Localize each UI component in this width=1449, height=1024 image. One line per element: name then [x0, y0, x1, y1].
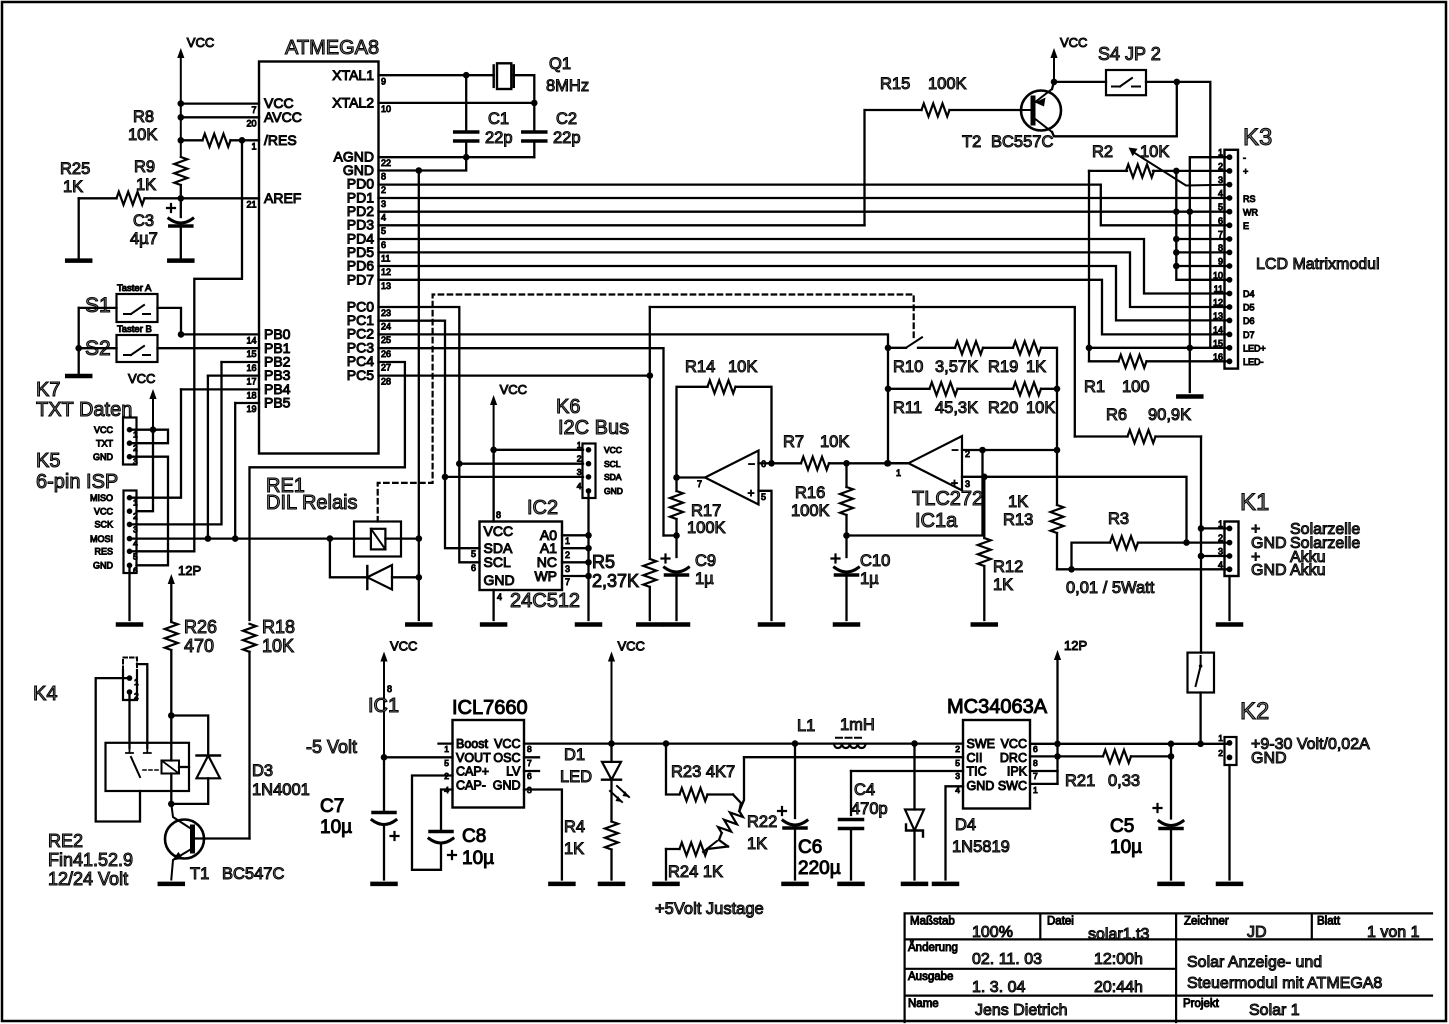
resistor R8 10K on /RES line	[181, 139, 203, 141]
junction dot diode right	[416, 574, 423, 581]
svg-text:1N5819: 1N5819	[952, 838, 1010, 856]
svg-text:IPK: IPK	[1007, 765, 1028, 779]
svg-text:R10: R10	[893, 358, 923, 376]
potentiometer R2 10K contrast	[1089, 170, 1127, 172]
svg-text:25: 25	[381, 335, 391, 345]
svg-text:4µ7: 4µ7	[130, 230, 158, 248]
svg-text:VCC: VCC	[604, 445, 622, 455]
svg-text:1: 1	[1033, 785, 1038, 795]
svg-text:D3: D3	[252, 762, 273, 780]
svg-text:ATMEGA8: ATMEGA8	[285, 37, 379, 59]
svg-text:R6: R6	[1106, 406, 1127, 424]
svg-text:C5: C5	[1110, 816, 1134, 837]
svg-text:12: 12	[1213, 298, 1223, 308]
svg-text:D1: D1	[564, 746, 585, 764]
inductor L1 1mH	[834, 744, 866, 748]
K3 pin dots	[1227, 154, 1233, 160]
switch S1 Taster A box	[117, 294, 158, 322]
svg-text:SCK: SCK	[94, 520, 113, 530]
svg-text:3: 3	[133, 457, 138, 467]
svg-text:4: 4	[1218, 560, 1223, 570]
junction dot K1 pin3	[1198, 553, 1205, 560]
svg-text:10µ: 10µ	[462, 848, 494, 869]
wire PC5/R5/R6 net horizontal	[650, 307, 1075, 437]
svg-text:CII: CII	[967, 751, 983, 765]
RE1 coil symbol	[371, 529, 386, 550]
svg-text:10K: 10K	[1026, 399, 1055, 417]
svg-text:S1: S1	[85, 294, 111, 317]
junction dot RE1 right	[416, 535, 423, 542]
resistor R1 100 to K3 pin16 LED-	[1089, 360, 1119, 362]
junction dot PB3 vertical on MOSI row	[205, 535, 212, 542]
trimmer R22 1K diagonal	[717, 807, 745, 837]
12P power arrow at MC34063A	[1054, 650, 1061, 660]
connector K7 TXT Daten box	[123, 418, 137, 465]
svg-text:12/24 Volt: 12/24 Volt	[48, 869, 128, 889]
svg-text:D4: D4	[1243, 289, 1255, 299]
wire K1 pin1 row	[1201, 527, 1230, 529]
wire IC1a non-inverting row to R3 right	[962, 477, 1187, 543]
svg-text:SCL: SCL	[484, 554, 511, 570]
svg-text:1: 1	[133, 498, 138, 508]
svg-text:Maßstab: Maßstab	[910, 916, 955, 928]
junction dot WR/GND	[1187, 208, 1194, 215]
fuse/switch box below K1	[1188, 653, 1215, 693]
svg-text:100: 100	[1122, 378, 1150, 396]
svg-text:WR: WR	[1243, 208, 1258, 218]
svg-text:1: 1	[896, 468, 901, 478]
svg-text:K4: K4	[33, 683, 57, 705]
svg-text:02. 11. 03: 02. 11. 03	[972, 951, 1042, 968]
wire VCC pin7 row	[181, 102, 259, 104]
svg-text:GND: GND	[93, 561, 114, 571]
wire K4 upper stub to RE2 second contact	[137, 664, 147, 748]
svg-text:12: 12	[381, 267, 391, 277]
junction dot PC5/R5 tap	[647, 372, 654, 379]
junction dot R11/R20 on vertical	[1054, 386, 1061, 393]
svg-text:Zeichner: Zeichner	[1184, 916, 1229, 928]
ground under K5	[118, 622, 141, 627]
wire R13 bottom row to K1 pin4	[1057, 568, 1230, 570]
junction dot R10 row	[885, 345, 892, 352]
resistor R23 4K7	[666, 744, 680, 795]
wire IC1b non-inverting to ground	[759, 491, 772, 620]
wire OSC pin stub	[524, 756, 539, 758]
wire PB3 row	[208, 374, 259, 376]
connector K1 box	[1225, 522, 1239, 577]
svg-text:2: 2	[381, 185, 386, 195]
svg-text:5: 5	[381, 226, 386, 236]
resistor R26 470	[170, 620, 172, 622]
svg-text:S4 JP 2: S4 JP 2	[1098, 44, 1161, 64]
svg-text:7: 7	[1033, 771, 1038, 781]
svg-text:R11: R11	[893, 399, 922, 417]
wire CII row to MC34063A	[744, 756, 963, 758]
junction dot PB0	[178, 331, 185, 338]
svg-text:Solar 1: Solar 1	[1249, 1002, 1300, 1019]
junction dot R21/C5	[1168, 753, 1175, 760]
svg-text:12P: 12P	[1064, 638, 1087, 653]
svg-text:DIL Relais: DIL Relais	[266, 492, 358, 514]
wire switch to VCC rail	[1199, 693, 1201, 744]
svg-text:I2C Bus: I2C Bus	[558, 417, 629, 439]
svg-text:12:00h: 12:00h	[1094, 951, 1143, 968]
svg-text:7: 7	[1218, 230, 1223, 240]
wire RE2 coil bottom to T1 collector	[170, 774, 172, 804]
capacitor C2 22p	[533, 103, 535, 130]
resistor R11 45,3K	[888, 388, 930, 390]
junction dot VOUT/-5V	[381, 754, 388, 761]
svg-text:RE2: RE2	[48, 831, 83, 851]
diode D3 1N4001	[171, 716, 208, 756]
svg-text:90,9K: 90,9K	[1148, 406, 1191, 424]
svg-text:7: 7	[527, 758, 532, 768]
junction dot LED+ horizontal left	[1086, 345, 1093, 352]
connector K4 box (partially dashed)	[123, 658, 137, 671]
junction dots on vertical A	[1173, 208, 1180, 215]
svg-text:10K: 10K	[128, 126, 157, 144]
svg-text:VOUT: VOUT	[456, 751, 491, 765]
svg-text:4: 4	[1218, 189, 1223, 199]
wire stub to K3 pin7	[1176, 238, 1229, 240]
svg-text:LED: LED	[560, 768, 592, 786]
junction dot DRC/IPK	[1054, 753, 1061, 760]
svg-text:R5: R5	[592, 552, 615, 572]
svg-text:D5: D5	[1243, 303, 1255, 313]
wire K5 GND stem down	[128, 565, 130, 620]
wire PB5 vertical	[234, 403, 236, 539]
capacitor C9 1u	[675, 536, 677, 558]
svg-text:1: 1	[565, 536, 570, 546]
wire K4 pin1 loop to RE2 common	[96, 678, 140, 821]
svg-text:8: 8	[387, 684, 392, 694]
svg-text:VCC: VCC	[1001, 737, 1027, 751]
svg-text:MISO: MISO	[90, 493, 113, 503]
wire PD6 to K3 pin13 D6	[379, 266, 1230, 320]
svg-text:Blatt: Blatt	[1317, 916, 1341, 928]
VCC power arrow above D1	[608, 652, 615, 662]
svg-text:ICL7660: ICL7660	[452, 697, 528, 719]
wire solar+ vertical to K1 and switch	[1200, 437, 1202, 653]
resistor R5 2,37K divider	[649, 307, 651, 376]
svg-text:5: 5	[444, 758, 449, 768]
svg-text:6: 6	[1218, 216, 1223, 226]
ground under C6	[784, 882, 807, 887]
svg-text:3: 3	[1218, 547, 1223, 557]
svg-text:Taster A: Taster A	[117, 283, 152, 294]
wire PD2 to K3 pin5 WR	[379, 211, 1230, 213]
wire PB5 row	[235, 402, 259, 404]
ground under R12	[973, 622, 996, 627]
svg-text:R21: R21	[1065, 772, 1095, 790]
svg-text:R19: R19	[988, 358, 1018, 376]
svg-text:470p: 470p	[851, 800, 888, 818]
svg-text:20: 20	[246, 119, 256, 129]
wire T2 emitter to VCC	[1052, 82, 1054, 89]
svg-text:IC1: IC1	[368, 695, 399, 717]
junction dot VCC vertical at K7	[150, 426, 157, 433]
wire K1 ground stem	[1228, 576, 1230, 620]
title block frame	[905, 913, 1432, 1022]
LED D1	[610, 744, 612, 762]
resistor R18 10K	[243, 624, 256, 652]
svg-text:R1: R1	[1084, 378, 1105, 396]
svg-text:Datei: Datei	[1047, 916, 1074, 928]
wire S1 right to PB0	[158, 308, 182, 335]
wire K6 pin2 SCL row	[459, 463, 583, 465]
svg-text:TIC: TIC	[967, 765, 987, 779]
svg-text:15: 15	[1213, 338, 1223, 348]
svg-text:6: 6	[381, 240, 386, 250]
wire vertical A (ties pins 7-10, WR)	[1176, 171, 1229, 280]
junction dot VCC	[178, 100, 185, 107]
wire K7 pin1 row with link to pin2	[130, 430, 169, 444]
wire PD7 to K3 pin14 D7	[379, 280, 1230, 335]
svg-text:100%: 100%	[972, 924, 1013, 941]
junction dot C1 top	[463, 72, 470, 79]
junction dot /RES net	[239, 137, 246, 144]
wire IC2 A1 stub	[562, 547, 589, 549]
VCC power arrow at T2	[1050, 48, 1057, 58]
ground under T1	[160, 882, 183, 887]
wire AREF row	[181, 197, 259, 199]
op-amp IC1a TLC272 triangle	[909, 436, 963, 490]
IC MC34063A box	[963, 720, 1030, 809]
svg-text:7: 7	[697, 479, 702, 489]
svg-text:6-pin ISP: 6-pin ISP	[36, 471, 118, 493]
wire PC5 row	[379, 374, 650, 376]
wire IC2 VCC stem	[492, 450, 494, 522]
svg-text:4: 4	[497, 592, 502, 602]
svg-text:MOSI: MOSI	[90, 534, 113, 544]
wire PC3 ref vertical	[664, 534, 677, 536]
capacitor C8 10u with CAP+/CAP- loop	[412, 776, 453, 870]
svg-text:10: 10	[381, 104, 391, 114]
schottky diode D4 1N5819	[913, 744, 915, 810]
wire K5 MISO to PB4	[130, 389, 182, 497]
resistor R14 10K feedback	[677, 387, 708, 478]
svg-text:K3: K3	[1243, 124, 1272, 151]
svg-text:3,57K: 3,57K	[935, 358, 978, 376]
svg-text:22: 22	[381, 158, 391, 168]
svg-text:Steuermodul mit ATMEGA8: Steuermodul mit ATMEGA8	[1187, 975, 1382, 992]
junction dot GND row	[416, 167, 423, 174]
svg-text:2: 2	[1218, 161, 1223, 171]
resistor R10 3,57K	[955, 341, 983, 354]
junction dot K1 pin1	[1198, 525, 1205, 532]
svg-text:22p: 22p	[553, 129, 581, 147]
svg-text:20:44h: 20:44h	[1094, 979, 1143, 996]
wire RE1 right to GND vertical	[401, 537, 419, 539]
wire S4 to K3 LED+ branch	[1146, 82, 1210, 348]
svg-text:8MHz: 8MHz	[546, 77, 589, 95]
wire DRC-IPK-SWC vertical	[1056, 744, 1058, 784]
svg-text:SCL: SCL	[604, 459, 621, 469]
wire S1 left	[79, 307, 117, 309]
wire MC34063A GND to ground	[946, 786, 964, 879]
wire LV pin stub	[524, 770, 539, 772]
wire IPK row	[1030, 770, 1058, 772]
T1 emitter with arrow	[171, 848, 193, 880]
svg-text:8: 8	[496, 510, 501, 520]
svg-text:-: -	[1243, 153, 1246, 163]
ground under ICL7660 GND	[550, 882, 573, 887]
svg-text:4: 4	[133, 539, 138, 549]
12P power arrow near K5	[168, 574, 175, 584]
svg-text:9: 9	[381, 77, 386, 87]
svg-text:R15: R15	[880, 75, 910, 93]
svg-text:Boost: Boost	[456, 737, 488, 751]
wire PB3 vertical	[207, 376, 209, 539]
junction dot R17 bottom / C9 / PC3 ref	[673, 532, 680, 539]
svg-text:+: +	[748, 486, 755, 500]
connector K5 6-pin ISP box	[124, 491, 137, 574]
svg-text:R17: R17	[691, 502, 721, 520]
capacitor C10 1u	[845, 536, 847, 558]
ground under C4	[840, 882, 863, 887]
svg-text:TXT: TXT	[96, 439, 114, 449]
svg-text:6: 6	[527, 771, 532, 781]
junction dot R21 right top	[1168, 741, 1175, 748]
svg-text:10K: 10K	[728, 358, 757, 376]
wire PD0 to K3 pin6 E	[379, 185, 1230, 226]
svg-text:1K: 1K	[747, 835, 767, 853]
svg-text:C9: C9	[695, 552, 716, 570]
junction dot R14/inverting input	[768, 460, 775, 467]
svg-text:SWC: SWC	[998, 779, 1027, 793]
svg-text:3: 3	[1218, 175, 1223, 185]
svg-text:+: +	[1243, 167, 1248, 177]
junction dot on VCC arrow stem	[490, 447, 497, 454]
junction dot on IC1a inverting row	[979, 447, 986, 454]
svg-text:16: 16	[1213, 352, 1223, 362]
resistor R21 0,33	[1058, 755, 1104, 757]
connector K3 LCD module box	[1225, 150, 1239, 369]
junction dot D1 top	[608, 740, 615, 747]
svg-text:1: 1	[1218, 148, 1223, 158]
ground under R4	[600, 882, 623, 887]
ground under D4	[903, 882, 926, 887]
junction dot LED+/GND row	[1187, 345, 1194, 352]
svg-text:Name: Name	[908, 998, 939, 1010]
wire R7 node to IC1a output	[847, 462, 909, 464]
wire TIC row to MC34063A	[851, 770, 963, 772]
svg-text:VCC: VCC	[1060, 35, 1087, 50]
svg-text:2: 2	[1218, 533, 1223, 543]
svg-text:C10: C10	[860, 552, 890, 570]
wire Boost pin stub	[439, 742, 453, 744]
svg-text:K5: K5	[36, 450, 60, 472]
svg-text:14: 14	[246, 336, 256, 346]
resistor R19 1K	[1013, 341, 1041, 354]
svg-text:BC557C: BC557C	[991, 133, 1053, 151]
svg-text:R8: R8	[133, 108, 154, 126]
svg-text:1K: 1K	[1026, 358, 1046, 376]
wire ICL7660 GND pin to ground	[524, 790, 562, 880]
svg-text:R26: R26	[184, 617, 217, 637]
svg-text:100K: 100K	[791, 502, 830, 520]
svg-text:1: 1	[134, 677, 139, 687]
svg-text:+5Volt Justage: +5Volt Justage	[655, 900, 764, 918]
svg-text:SWE: SWE	[967, 737, 995, 751]
resistor R25 1K	[79, 197, 117, 199]
VCC power arrow (top left)	[177, 48, 184, 58]
wire PC1 to SDA	[379, 321, 480, 549]
svg-text:1N4001: 1N4001	[252, 781, 310, 799]
resistor R20 10K	[1013, 382, 1041, 395]
svg-text:VCC: VCC	[618, 639, 645, 654]
relay RE1 DIL Relais outer box	[354, 522, 401, 557]
EEPROM IC2 24C512 box	[480, 522, 563, 591]
wire + net vertical from R2 left	[1088, 171, 1090, 361]
svg-text:K2: K2	[1240, 698, 1269, 725]
junction dot S2 left	[75, 345, 82, 352]
svg-text:GND: GND	[493, 779, 521, 793]
wire AGND row	[379, 156, 535, 158]
svg-text:1K: 1K	[136, 176, 156, 194]
svg-text:Projekt: Projekt	[1183, 998, 1220, 1010]
junction dot R26/D3 top	[168, 712, 175, 719]
svg-text:2: 2	[133, 511, 138, 521]
svg-text:3: 3	[133, 524, 138, 534]
svg-text:1K: 1K	[564, 840, 584, 858]
svg-text:R23 4K7: R23 4K7	[671, 763, 735, 781]
svg-text:R16: R16	[795, 484, 825, 502]
svg-text:D6: D6	[1243, 316, 1255, 326]
svg-text:Jens Dietrich: Jens Dietrich	[975, 1002, 1067, 1019]
junction dot R23 branch	[663, 740, 670, 747]
junction dot C6 top	[792, 740, 799, 747]
junction dots A0 A1 NC WP	[585, 532, 592, 539]
wire K3 pin1 minus to GND vertical B	[1190, 157, 1230, 392]
wire K6 pin1 VCC row	[492, 449, 583, 451]
svg-text:VCC: VCC	[494, 737, 520, 751]
ground under R24	[655, 882, 678, 887]
wire SWC row	[1030, 783, 1058, 785]
svg-text:5: 5	[955, 758, 960, 768]
resistor R15 100K	[865, 110, 922, 225]
svg-text:Solar Anzeige- und: Solar Anzeige- und	[1187, 954, 1322, 971]
svg-text:TXT Daten: TXT Daten	[36, 399, 132, 421]
resistor R3 shunt 0,01/5Watt	[1072, 543, 1111, 570]
svg-text:R4: R4	[564, 818, 585, 836]
svg-text:R24 1K: R24 1K	[668, 863, 723, 881]
svg-text:11: 11	[1214, 284, 1223, 294]
wire IC1a inverting row	[962, 449, 1057, 451]
svg-text:D4: D4	[955, 816, 976, 834]
RE2 coil symbol	[162, 761, 180, 774]
svg-text:11: 11	[381, 254, 390, 264]
svg-text:1: 1	[133, 430, 138, 440]
svg-text:CAP-: CAP-	[456, 779, 486, 793]
svg-text:1K: 1K	[63, 178, 83, 196]
svg-text:1mH: 1mH	[840, 716, 875, 734]
svg-text:6: 6	[471, 563, 476, 573]
svg-text:4: 4	[577, 481, 582, 491]
ground under R25 left	[67, 258, 90, 263]
capacitor C1 22p	[465, 75, 467, 129]
svg-text:4: 4	[381, 213, 386, 223]
jumper S4 JP2 box	[1054, 81, 1106, 83]
svg-text:2: 2	[1218, 748, 1223, 758]
wire R25 left leg down	[78, 198, 80, 260]
svg-text:27: 27	[381, 363, 391, 373]
ground under C5	[1160, 882, 1183, 887]
svg-text:19: 19	[246, 404, 256, 414]
svg-text:R12: R12	[993, 558, 1023, 576]
wire DRC row	[1030, 755, 1058, 757]
junction dot IC1a output node	[885, 460, 892, 467]
